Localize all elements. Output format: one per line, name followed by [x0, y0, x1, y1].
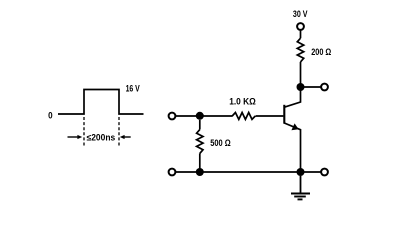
terminal collector output (open circle)	[321, 84, 328, 91]
wire dashed extension line left	[83, 117, 85, 146]
svg-text:1.0 KΩ: 1.0 KΩ	[229, 96, 256, 106]
resistor 500 ohm	[197, 120, 203, 172]
node junction 500ohm/bottom rail	[196, 168, 204, 176]
wire dimension arrow right	[120, 135, 131, 139]
svg-text:0: 0	[48, 111, 53, 121]
svg-text:200 Ω: 200 Ω	[311, 47, 331, 57]
wire bottom rail	[176, 171, 321, 173]
resistor 1.0 Kohm	[232, 113, 255, 120]
wire supply to resistor	[300, 30, 302, 38]
svg-text:30 V: 30 V	[293, 9, 308, 19]
wire resistor to collector node	[300, 62, 302, 87]
node junction input/500ohm	[196, 112, 204, 120]
wire input to resistor	[176, 115, 233, 117]
wire resistor to base	[256, 115, 284, 117]
terminal 30 V supply (open circle)	[297, 23, 304, 30]
terminal input left (open circle)	[169, 113, 176, 120]
terminal bottom left (open circle)	[169, 169, 176, 176]
wire collector node to output terminal	[304, 86, 321, 88]
terminal bottom right (open circle)	[321, 169, 328, 176]
wire pulse waveform	[58, 90, 144, 115]
svg-text:500 Ω: 500 Ω	[210, 138, 231, 148]
svg-text:≤200ns: ≤200ns	[87, 132, 116, 142]
ground	[291, 176, 310, 199]
resistor 200 ohm	[297, 38, 303, 62]
node junction collector	[297, 83, 305, 91]
wire dimension arrow left	[68, 135, 83, 139]
node junction emitter/bottom rail	[297, 168, 305, 176]
transistor Q1 NPN	[284, 87, 300, 172]
wire dashed extension line right	[118, 117, 120, 146]
svg-text:16 V: 16 V	[126, 83, 140, 93]
